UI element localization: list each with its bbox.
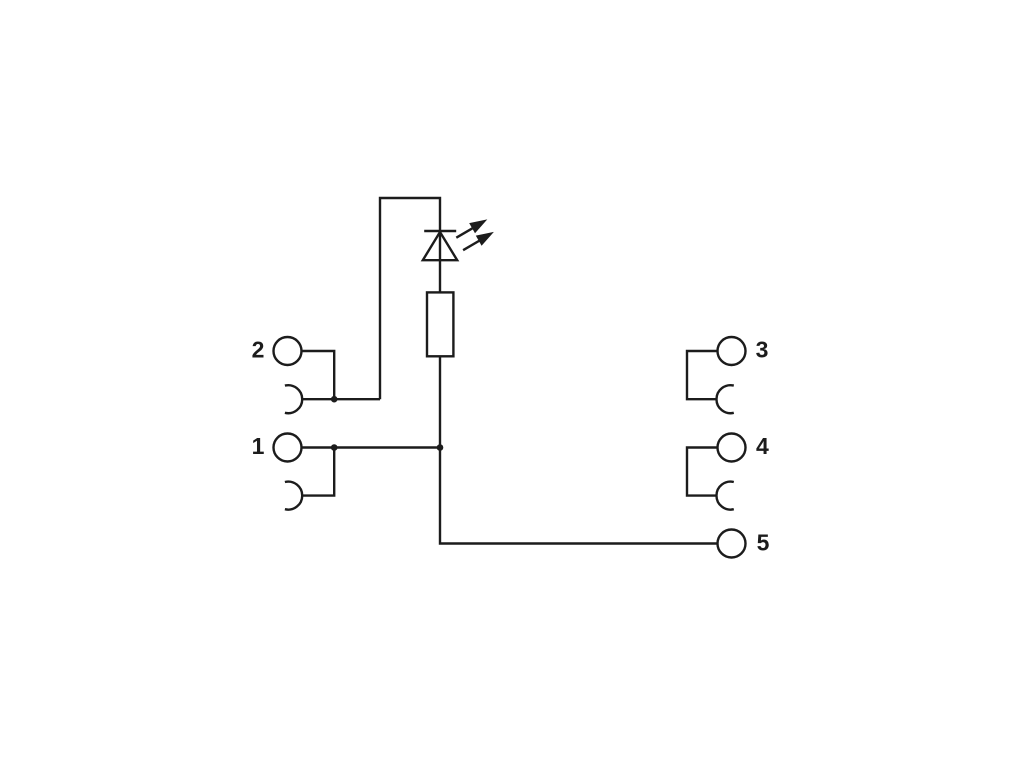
LED D1 light arrow 1 [456, 219, 487, 237]
wire resistor down through node B to bottom corner and right to terminal 5 [440, 356, 718, 543]
terminal 5 circle [718, 530, 746, 558]
LED D1 light arrow 2 [463, 232, 494, 250]
wire node C down to socket 1 [302, 448, 334, 496]
svg-text:3: 3 [756, 337, 769, 363]
socket 4 open contact arc [716, 482, 733, 510]
socket 3 open contact arc [716, 385, 733, 413]
wire top loop from node A up and over through LED to resistor [380, 198, 440, 399]
node C junction dot [331, 444, 338, 451]
wire terminal 3 bracket to socket 3 [687, 351, 718, 399]
wire socket 2 through node A to riser [302, 398, 380, 400]
terminal 1 circle [274, 434, 302, 462]
svg-text:2: 2 [252, 337, 265, 363]
node B junction dot [437, 444, 444, 451]
wire terminal 1 through node C to node B [302, 446, 441, 448]
node A junction dot [331, 396, 338, 403]
svg-text:1: 1 [252, 433, 265, 459]
wire terminal 4 bracket to socket 4 [687, 448, 718, 496]
terminal 3 circle [718, 337, 746, 365]
socket 2 open contact arc [285, 385, 302, 413]
svg-text:5: 5 [757, 530, 770, 556]
terminal 2 circle [274, 337, 302, 365]
LED D1 cathode bar [424, 230, 456, 232]
svg-text:4: 4 [756, 433, 769, 459]
terminal 4 circle [718, 434, 746, 462]
socket 1 open contact arc [285, 482, 302, 510]
wire terminal 2 to node A bracket [302, 351, 335, 399]
resistor R1 [427, 292, 453, 356]
LED D1 triangle [423, 232, 457, 260]
